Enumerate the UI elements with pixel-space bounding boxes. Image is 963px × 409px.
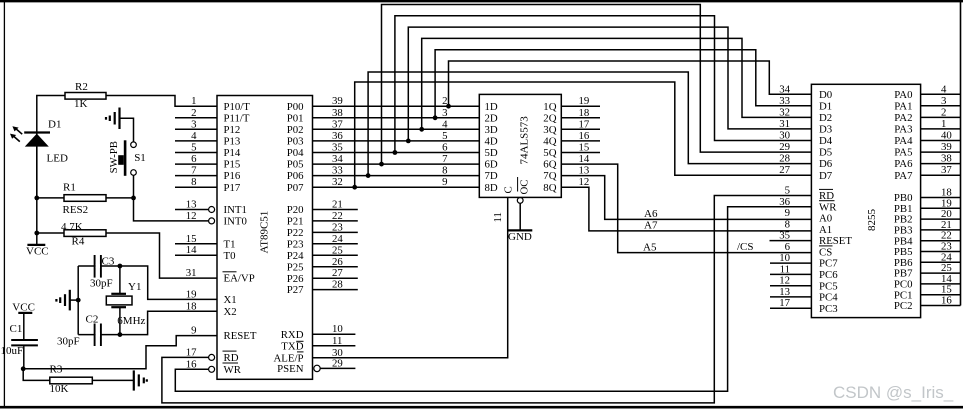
wire stub PSEN — [320, 367, 355, 369]
wire R4 to EA/VP — [37, 233, 217, 278]
svg-text:P04: P04 — [287, 147, 304, 159]
svg-text:7: 7 — [442, 153, 448, 165]
svg-text:C3: C3 — [102, 255, 115, 267]
svg-text:16: 16 — [941, 295, 952, 307]
svg-text:P16: P16 — [224, 170, 241, 182]
svg-text:P15: P15 — [224, 159, 241, 171]
svg-text:AT89C51: AT89C51 — [259, 211, 271, 254]
svg-text:1D: 1D — [485, 101, 498, 113]
wire net A5 (6Q to 8255 CS) — [561, 164, 811, 253]
svg-text:8Q: 8Q — [543, 182, 556, 194]
svg-text:P24: P24 — [287, 250, 304, 262]
svg-text:32: 32 — [779, 106, 790, 118]
svg-text:37: 37 — [941, 164, 952, 176]
svg-text:9: 9 — [785, 207, 790, 219]
svg-text:PC7: PC7 — [819, 258, 838, 270]
AT89C51 ALE/P P-overline — [297, 351, 304, 353]
svg-text:PA1: PA1 — [894, 100, 912, 112]
svg-text:R2: R2 — [75, 81, 88, 93]
svg-text:10: 10 — [332, 323, 343, 335]
wire stub 8255 right pin row 7 — [921, 174, 961, 176]
svg-text:1: 1 — [941, 118, 946, 130]
wire RD net — [162, 196, 812, 403]
wire Y1 bottom — [119, 308, 121, 335]
wire net A7 (8Q to 8255 A1) — [561, 187, 811, 231]
wire stub 2Q — [561, 117, 600, 119]
svg-text:5Q: 5Q — [543, 147, 556, 159]
svg-text:19: 19 — [579, 95, 590, 107]
crystal Y1 — [111, 293, 126, 295]
svg-text:R4: R4 — [72, 236, 85, 248]
wire crystal gnd stem — [70, 299, 78, 301]
wire stub pin 6 — [175, 163, 217, 165]
svg-text:D1: D1 — [819, 100, 832, 112]
svg-text:1: 1 — [191, 95, 196, 107]
svg-text:TXD: TXD — [281, 340, 303, 352]
wire stub P25 — [313, 266, 358, 268]
svg-text:3D: 3D — [485, 124, 498, 136]
svg-text:33: 33 — [332, 165, 343, 177]
wire stub 8255 right pin row 10 — [921, 218, 961, 220]
svg-text:38: 38 — [941, 153, 952, 165]
svg-text:PA7: PA7 — [894, 170, 913, 182]
svg-text:2: 2 — [941, 106, 946, 118]
wire stub 8255 PC4 — [770, 296, 811, 298]
svg-text:P13: P13 — [224, 136, 241, 148]
svg-text:22: 22 — [332, 210, 343, 222]
svg-text:18: 18 — [186, 300, 197, 312]
svg-text:30pF: 30pF — [57, 336, 80, 348]
svg-text:36: 36 — [779, 196, 790, 208]
wire net A6 (7Q to 8255 A0) — [561, 176, 811, 220]
resistor R2 — [65, 93, 106, 100]
svg-text:D0: D0 — [819, 89, 832, 101]
AT89C51 PSEN pin circle — [314, 365, 320, 371]
wire stub pin 3 — [175, 128, 217, 130]
svg-text:EA/VP: EA/VP — [224, 273, 255, 285]
wire WR net — [175, 207, 811, 391]
wire stub 8255 RESET — [770, 240, 812, 242]
junction dots — [34, 196, 39, 201]
svg-text:13: 13 — [579, 165, 590, 177]
svg-text:14: 14 — [186, 244, 197, 256]
svg-text:11: 11 — [332, 335, 342, 347]
AT89C51 INT1 INT0 pin circles — [209, 207, 215, 213]
svg-text:30pF: 30pF — [90, 277, 113, 289]
svg-text:7D: 7D — [485, 170, 498, 182]
8255 RD WR CS overlines — [819, 188, 833, 190]
svg-text:4D: 4D — [485, 136, 498, 148]
svg-text:3: 3 — [191, 118, 196, 130]
wire stub 8255 PC5 — [770, 285, 811, 287]
svg-text:D1: D1 — [48, 119, 61, 131]
wire stub T0 — [175, 254, 217, 256]
svg-text:16: 16 — [579, 130, 590, 142]
svg-text:P17: P17 — [224, 182, 241, 194]
svg-text:D6: D6 — [819, 158, 833, 170]
svg-text:WR: WR — [224, 364, 242, 376]
svg-text:A6: A6 — [644, 208, 658, 220]
wire net P00 to latch 1D and 8255 D0 — [313, 105, 480, 107]
svg-text:P01: P01 — [287, 112, 304, 124]
power VCC (left rail) — [27, 244, 45, 246]
svg-text:23: 23 — [332, 221, 343, 233]
wire stub 8255 right pin row 0 — [921, 93, 961, 95]
svg-text:12: 12 — [579, 176, 590, 188]
svg-text:28: 28 — [779, 153, 790, 165]
svg-text:CSDN @s_Iris_: CSDN @s_Iris_ — [833, 383, 954, 402]
svg-text:Y1: Y1 — [128, 281, 141, 293]
svg-text:5: 5 — [191, 142, 196, 154]
wire X2 net — [78, 311, 217, 334]
wire stub 8255 right pin row 11 — [921, 229, 961, 231]
wire X1 net — [78, 266, 217, 299]
svg-text:4: 4 — [442, 118, 448, 130]
svg-text:R1: R1 — [63, 182, 76, 194]
svg-text:PA5: PA5 — [894, 147, 912, 159]
svg-text:13: 13 — [779, 286, 790, 298]
wire stub 8255 right pin row 14 — [921, 261, 961, 263]
svg-text:6MHz: 6MHz — [117, 315, 145, 327]
capacitor C3 — [94, 255, 96, 278]
svg-text:WR: WR — [819, 201, 837, 213]
svg-text:8: 8 — [442, 165, 447, 177]
wire stub 8255 right pin row 15 — [921, 272, 961, 274]
svg-text:PA2: PA2 — [894, 112, 912, 124]
wire stub P21 — [313, 220, 358, 222]
svg-text:6: 6 — [191, 153, 197, 165]
svg-text:4: 4 — [941, 83, 947, 95]
svg-text:PC3: PC3 — [819, 303, 838, 315]
svg-text:X1: X1 — [224, 294, 237, 306]
wire stub P24 — [313, 254, 358, 256]
svg-text:SW-PB: SW-PB — [108, 141, 120, 173]
svg-text:27: 27 — [779, 164, 790, 176]
svg-text:PC5: PC5 — [819, 280, 838, 292]
svg-text:7: 7 — [191, 165, 197, 177]
wire stub 8255 right pin row 4 — [921, 140, 961, 142]
wire stub 8255 PC7 — [770, 262, 811, 264]
svg-text:27: 27 — [332, 267, 343, 279]
svg-text:P11/T: P11/T — [224, 112, 250, 124]
svg-text:19: 19 — [186, 288, 197, 300]
svg-text:4: 4 — [191, 130, 197, 142]
svg-text:14: 14 — [579, 153, 590, 165]
svg-text:10: 10 — [779, 252, 790, 264]
svg-text:17: 17 — [579, 118, 590, 130]
wire stub 8255 right pin row 1 — [921, 105, 961, 107]
svg-text:35: 35 — [332, 142, 343, 154]
svg-text:A0: A0 — [819, 213, 832, 225]
wire stub pin 7 — [175, 175, 217, 177]
wire stub P23 — [313, 243, 358, 245]
svg-text:16: 16 — [186, 358, 197, 370]
wire stub pin 5 — [175, 152, 217, 154]
svg-text:P00: P00 — [287, 101, 304, 113]
svg-text:2D: 2D — [485, 112, 498, 124]
svg-text:C1: C1 — [10, 323, 23, 335]
svg-text:30: 30 — [779, 130, 790, 142]
wire stub 1Q — [561, 105, 600, 107]
svg-text:A7: A7 — [644, 219, 658, 231]
wire stub 8255 right pin row 12 — [921, 240, 961, 242]
svg-text:18: 18 — [579, 107, 590, 119]
wire stub INT1 — [175, 209, 209, 211]
svg-text:C2: C2 — [86, 314, 99, 326]
svg-text:17: 17 — [779, 297, 790, 309]
wire stub TXD — [313, 345, 356, 347]
svg-text:PC2: PC2 — [894, 300, 913, 312]
svg-text:8D: 8D — [485, 182, 498, 194]
wire stub 8255 right pin row 18 — [921, 305, 961, 307]
svg-text:15: 15 — [579, 142, 590, 154]
capacitor C1 — [11, 339, 38, 341]
wire stub 8255 right pin row 2 — [921, 116, 961, 118]
svg-text:9: 9 — [442, 176, 447, 188]
wire stub 8255 right pin row 3 — [921, 128, 961, 130]
svg-text:39: 39 — [941, 141, 952, 153]
wire stub 8255 right pin row 6 — [921, 163, 961, 165]
wire net P01 to latch 2D and 8255 D1 — [313, 117, 480, 119]
svg-text:2: 2 — [191, 107, 196, 119]
svg-text:VCC: VCC — [26, 245, 49, 257]
wire stub 8255 right pin row 17 — [921, 294, 961, 296]
wire net P05 to latch 6D and 8255 D5 — [313, 163, 480, 165]
svg-text:13: 13 — [186, 199, 197, 211]
svg-text:PC4: PC4 — [819, 292, 838, 304]
svg-text:LED: LED — [47, 152, 68, 164]
svg-text:1Q: 1Q — [543, 101, 556, 113]
wire net P03 to latch 4D and 8255 D3 — [313, 140, 480, 142]
AT89C51 RD WR pin circles — [209, 354, 215, 360]
svg-text:35: 35 — [779, 230, 790, 242]
wire stub P27 — [313, 289, 358, 291]
ground (S1) — [118, 108, 120, 130]
ground (crystal) — [69, 290, 71, 311]
svg-text:P05: P05 — [287, 159, 304, 171]
svg-text:33: 33 — [779, 95, 790, 107]
wire stub 4Q — [561, 140, 600, 142]
svg-text:T1: T1 — [224, 238, 236, 250]
wire stub 8255 right pin row 13 — [921, 251, 961, 253]
wire stub RXD — [313, 333, 356, 335]
svg-text:P12: P12 — [224, 124, 241, 136]
svg-text:D7: D7 — [819, 170, 833, 182]
svg-text:P20: P20 — [287, 204, 304, 216]
svg-text:PSEN: PSEN — [277, 363, 304, 375]
wire net P02 to latch 3D and 8255 D2 — [313, 128, 480, 130]
svg-text:6: 6 — [442, 142, 448, 154]
wire stub P22 — [313, 231, 358, 233]
resistor R3 — [50, 377, 93, 384]
svg-text:1K: 1K — [74, 98, 88, 110]
svg-text:P07: P07 — [287, 182, 304, 194]
svg-text:3: 3 — [941, 95, 946, 107]
wire VCC rail / LED branch to pin1 — [37, 96, 217, 198]
svg-text:21: 21 — [332, 199, 343, 211]
wire node to INT0 — [134, 198, 209, 221]
svg-text:8255: 8255 — [866, 209, 878, 232]
svg-text:5: 5 — [442, 130, 447, 142]
wire C1 bottom — [23, 346, 25, 369]
svg-text:6Q: 6Q — [543, 159, 556, 171]
svg-text:PA3: PA3 — [894, 124, 912, 136]
svg-text:D5: D5 — [819, 147, 832, 159]
wire latch OC to GND — [519, 203, 521, 230]
wire R1 row — [37, 197, 134, 199]
svg-text:PA0: PA0 — [894, 89, 912, 101]
svg-text:RD: RD — [224, 352, 239, 364]
wire stub pin 4 — [175, 140, 217, 142]
op-amp U3: 8255 PPI — [811, 84, 920, 317]
svg-text:D2: D2 — [819, 112, 832, 124]
capacitor C2 — [94, 324, 96, 347]
svg-text:39: 39 — [332, 95, 343, 107]
svg-text:12: 12 — [186, 210, 197, 222]
svg-text:C: C — [503, 186, 515, 193]
wire RESET net — [23, 336, 217, 369]
svg-text:P22: P22 — [287, 227, 304, 239]
svg-text:38: 38 — [332, 107, 343, 119]
svg-text:24: 24 — [332, 233, 343, 245]
svg-text:INT0: INT0 — [224, 216, 247, 228]
svg-text:P25: P25 — [287, 261, 304, 273]
svg-text:GND: GND — [508, 231, 532, 243]
wire stub 8255 right pin row 16 — [921, 283, 961, 285]
svg-text:P06: P06 — [287, 170, 304, 182]
ground (R3) — [133, 370, 135, 390]
wire stub 3Q — [561, 128, 600, 130]
svg-text:RES2: RES2 — [63, 204, 89, 216]
resistor R1 — [64, 195, 106, 202]
wire stub 8255 right pin row 5 — [921, 151, 961, 153]
svg-text:/CS: /CS — [737, 241, 754, 253]
svg-text:X2: X2 — [224, 306, 237, 318]
LED D1 — [24, 131, 50, 133]
svg-text:3Q: 3Q — [543, 124, 556, 136]
AT89C51 RD overline — [223, 350, 237, 352]
svg-text:29: 29 — [332, 357, 343, 369]
svg-text:CS: CS — [819, 246, 832, 258]
wire R3 row — [23, 369, 134, 381]
svg-text:T0: T0 — [224, 250, 236, 262]
svg-text:2Q: 2Q — [543, 112, 556, 124]
svg-text:RESET: RESET — [224, 330, 257, 342]
wire crystal left rail — [77, 266, 79, 335]
svg-text:9: 9 — [191, 325, 196, 337]
wire stub 8255 PC6 — [770, 273, 811, 275]
svg-text:25: 25 — [332, 244, 343, 256]
op-amp U2: 74ALS573 latch — [479, 94, 561, 197]
wire stub 8255 PC3 — [770, 307, 811, 309]
svg-text:12: 12 — [779, 275, 790, 287]
svg-text:7Q: 7Q — [543, 170, 556, 182]
svg-text:A1: A1 — [819, 224, 832, 236]
svg-text:P03: P03 — [287, 136, 304, 148]
svg-text:6D: 6D — [485, 159, 498, 171]
AT89C51 EA overline — [223, 271, 237, 273]
wire stub P20 — [313, 209, 358, 211]
svg-text:74ALS573: 74ALS573 — [519, 116, 531, 165]
svg-text:P10/T: P10/T — [224, 101, 251, 113]
svg-text:31: 31 — [186, 267, 197, 279]
svg-text:8: 8 — [191, 176, 196, 188]
svg-text:INT1: INT1 — [224, 204, 247, 216]
switch S1 SW-PB — [131, 142, 137, 148]
svg-text:6: 6 — [785, 241, 791, 253]
svg-text:P14: P14 — [224, 147, 241, 159]
svg-text:D3: D3 — [819, 124, 832, 136]
svg-text:34: 34 — [332, 153, 343, 165]
svg-text:2: 2 — [442, 95, 447, 107]
svg-text:OC: OC — [519, 180, 531, 195]
svg-text:PC6: PC6 — [819, 269, 838, 281]
ground GND (latch OC) — [517, 198, 523, 204]
svg-text:28: 28 — [332, 279, 343, 291]
svg-text:5: 5 — [785, 185, 790, 197]
wire net P04 to latch 5D and 8255 D4 — [313, 152, 480, 154]
svg-text:17: 17 — [186, 346, 197, 358]
svg-text:31: 31 — [779, 118, 790, 130]
wire LED cathode to R1 node — [36, 147, 38, 245]
wire stub 8255 right pin row 9 — [921, 207, 961, 209]
svg-text:R3: R3 — [50, 363, 63, 375]
svg-text:PA4: PA4 — [894, 135, 913, 147]
wire net PC2 to top — [960, 1, 962, 305]
wire stub P26 — [313, 277, 358, 279]
svg-text:P27: P27 — [287, 284, 304, 296]
svg-text:29: 29 — [779, 141, 790, 153]
svg-text:11: 11 — [780, 263, 790, 275]
svg-text:40: 40 — [941, 130, 952, 142]
svg-text:36: 36 — [332, 130, 343, 142]
svg-text:11: 11 — [492, 212, 504, 222]
svg-text:D4: D4 — [819, 135, 833, 147]
svg-text:P21: P21 — [287, 216, 304, 228]
wire stub 8255 right pin row 8 — [921, 197, 961, 199]
resistor R4 — [64, 230, 106, 237]
svg-text:P23: P23 — [287, 238, 304, 250]
AT89C51 WR overline — [223, 362, 239, 364]
wire ALE to latch C — [313, 197, 508, 357]
svg-text:32: 32 — [332, 176, 343, 188]
wire S1 top to ground — [120, 118, 134, 142]
wire stub 5Q — [561, 152, 600, 154]
op-amp U1: AT89C51 microcontroller — [217, 96, 313, 380]
svg-text:A5: A5 — [643, 241, 657, 253]
wire stub pin 8 — [175, 186, 217, 188]
svg-text:3: 3 — [442, 107, 447, 119]
svg-text:15: 15 — [186, 233, 197, 245]
wire net P06 to latch 7D and 8255 D6 — [313, 175, 480, 177]
svg-text:RXD: RXD — [281, 329, 304, 341]
svg-text:8: 8 — [785, 218, 790, 230]
AT89C51 TXD D-overline — [296, 340, 303, 342]
svg-text:37: 37 — [332, 118, 343, 130]
svg-text:26: 26 — [332, 256, 343, 268]
wire net P07 to latch 8D and 8255 D7 — [313, 186, 480, 188]
svg-text:5D: 5D — [485, 147, 498, 159]
svg-text:P02: P02 — [287, 124, 304, 136]
svg-text:10uF: 10uF — [1, 345, 24, 357]
svg-text:10K: 10K — [50, 383, 69, 395]
svg-text:4Q: 4Q — [543, 136, 556, 148]
wire stub pin 2 — [175, 117, 217, 119]
svg-text:34: 34 — [779, 83, 790, 95]
wire S1 bottom to INT0 node — [133, 175, 135, 198]
svg-text:S1: S1 — [134, 152, 146, 164]
svg-text:4.7K: 4.7K — [61, 221, 83, 233]
